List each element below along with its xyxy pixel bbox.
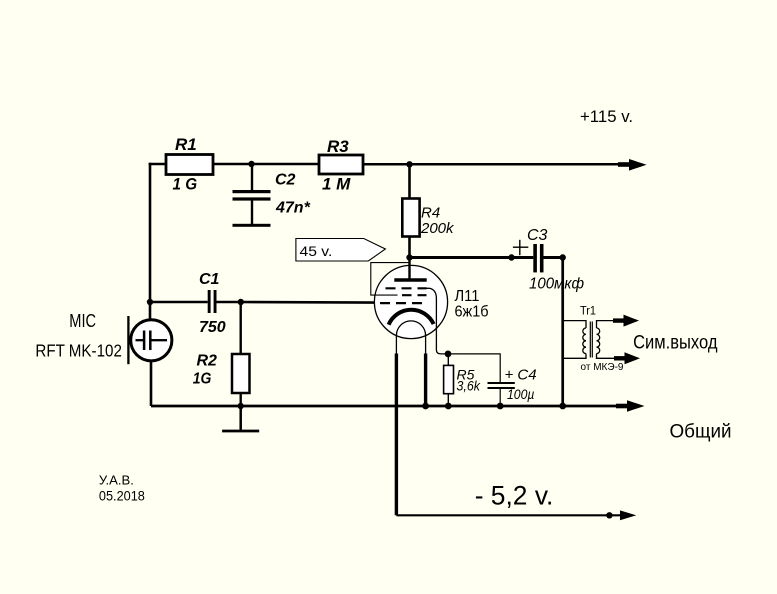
wire R5 top lead xyxy=(447,354,449,366)
label C3 plus sign xyxy=(513,240,528,255)
wire left vertical from R1 down to mic xyxy=(149,163,152,320)
svg-text:R2: R2 xyxy=(197,353,218,370)
node C1 right junction xyxy=(238,299,244,305)
wire -5,2v rail xyxy=(396,514,623,516)
svg-text:R1: R1 xyxy=(175,135,197,154)
tube U1 envelope xyxy=(374,265,447,338)
svg-text:+115 v.: +115 v. xyxy=(580,107,633,126)
resistor R1 xyxy=(166,155,213,175)
node on wire before C3 xyxy=(508,254,514,260)
node C2 top junction xyxy=(248,161,254,167)
svg-text:R4: R4 xyxy=(421,205,440,222)
resistor R3 xyxy=(319,155,363,174)
svg-text:+ C4: + C4 xyxy=(505,367,537,384)
svg-text:C2: C2 xyxy=(275,172,296,189)
wire junction to C4 branch xyxy=(448,354,500,383)
svg-text:6ж1б: 6ж1б xyxy=(455,303,489,320)
wire R2 top lead xyxy=(239,302,241,354)
tube U1 grid row 2 xyxy=(402,294,427,296)
primary winding xyxy=(583,328,586,354)
svg-text:MIC: MIC xyxy=(69,310,96,331)
svg-text:C3: C3 xyxy=(527,227,548,244)
mic diaphragm bar xyxy=(127,316,129,364)
node R5 bottom on bus xyxy=(445,403,452,410)
wire secondary top stub xyxy=(597,321,617,328)
svg-text:R3: R3 xyxy=(327,137,349,156)
svg-text:от МКЭ-9: от МКЭ-9 xyxy=(581,362,624,373)
svg-text:1 M: 1 M xyxy=(322,175,351,194)
ground xyxy=(222,406,259,431)
wire R5 bottom lead xyxy=(447,394,449,406)
wire mic bottom lead xyxy=(150,361,153,406)
mic capsule capacitor xyxy=(136,339,144,341)
wire secondary bottom stub xyxy=(597,354,618,359)
capacitor C2 xyxy=(233,164,271,227)
wire primary bottom stub xyxy=(563,354,586,359)
wire primary top stub xyxy=(563,321,586,328)
wire R4 bottom lead xyxy=(408,237,411,258)
wire anode internal lead xyxy=(408,258,410,281)
node R2 bottom xyxy=(238,403,244,409)
node anode junction xyxy=(406,254,412,260)
svg-text:1G: 1G xyxy=(193,371,212,388)
tube U1 grid row 1 xyxy=(386,287,427,289)
svg-text:3,6k: 3,6k xyxy=(457,378,481,394)
wire heater lead left (to -5,2v) xyxy=(395,354,398,516)
wire screen grid lead xyxy=(426,288,448,354)
mic body xyxy=(131,320,172,361)
capacitor C1 xyxy=(150,290,241,313)
tube U1 heater loop xyxy=(396,321,425,354)
wire R2 bottom lead xyxy=(239,393,241,406)
secondary winding xyxy=(597,328,600,354)
callout 45 v. xyxy=(296,239,386,262)
transformer Tr1 xyxy=(563,321,617,359)
node C4 bottom on bus xyxy=(497,403,504,410)
resistor R4 xyxy=(402,199,419,237)
svg-text:Сим.выход: Сим.выход xyxy=(633,332,718,354)
svg-text:200k: 200k xyxy=(420,220,455,237)
node screen junction R5 top xyxy=(445,351,452,358)
svg-text:100мкф: 100мкф xyxy=(529,275,584,292)
wire heater lead right (to bus) xyxy=(424,354,427,407)
core xyxy=(589,322,591,358)
node on -5,2v rail xyxy=(606,512,612,518)
wire top rail left segment xyxy=(149,163,166,166)
svg-text:45 v.: 45 v. xyxy=(300,243,333,259)
capacitor C3 xyxy=(533,244,562,272)
tube U1 grid box xyxy=(371,263,409,296)
node heater right on bus xyxy=(422,403,429,410)
terminal arrow -5,2v xyxy=(620,510,636,520)
resistor R5 xyxy=(444,365,454,393)
svg-text:100µ: 100µ xyxy=(507,387,535,402)
terminal arrow +115v xyxy=(618,159,647,171)
wire bottom bus xyxy=(151,405,627,408)
tube U1 grid row 3 xyxy=(380,302,424,304)
terminal arrow bus (Общий) xyxy=(616,400,645,411)
node C3 right junction xyxy=(560,254,566,260)
svg-text:У.А.В.: У.А.В. xyxy=(99,473,134,487)
wire R4 top lead xyxy=(408,164,411,198)
microphone MIC xyxy=(128,299,172,406)
wire C1 to tube grid xyxy=(241,301,375,304)
svg-text:Tr1: Tr1 xyxy=(580,306,596,318)
wire R3 to +115 arrow xyxy=(363,163,630,166)
node C1 left junction xyxy=(147,299,153,305)
wire anode to C3 xyxy=(410,256,534,259)
resistor R2 xyxy=(232,354,250,393)
node R4 top junction xyxy=(406,161,412,167)
terminal arrow output top xyxy=(613,315,639,327)
svg-text:- 5,2 v.: - 5,2 v. xyxy=(475,481,554,511)
wire R1 to R3 xyxy=(213,163,319,166)
wire C3 junction down to bus xyxy=(561,258,564,407)
node transformer return on bus xyxy=(559,403,566,410)
svg-text:1 G: 1 G xyxy=(173,175,198,194)
svg-text:Общий: Общий xyxy=(670,420,732,442)
terminal arrow output bottom xyxy=(614,352,640,364)
tube U1 cathode arc xyxy=(389,310,434,325)
svg-text:05.2018: 05.2018 xyxy=(99,489,145,504)
svg-text:750: 750 xyxy=(199,319,226,336)
tube U1 anode plate xyxy=(394,278,426,282)
svg-text:RFT MK-102: RFT MK-102 xyxy=(35,340,122,360)
svg-text:47n*: 47n* xyxy=(275,200,311,217)
svg-text:C1: C1 xyxy=(199,271,220,288)
capacitor C4 xyxy=(488,382,515,406)
